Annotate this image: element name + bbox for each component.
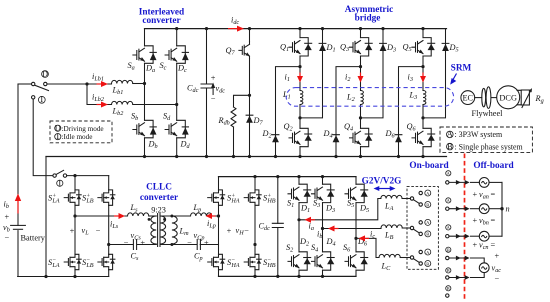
DC link capacitor Cdc leg bbox=[206, 29, 208, 157]
node L3 bottom bbox=[421, 116, 424, 119]
transistor Q3 bbox=[350, 38, 373, 56]
motor EC bbox=[461, 91, 475, 105]
current iLp arrow (left) bbox=[210, 215, 216, 217]
capacitor Cdc charger bbox=[272, 223, 283, 227]
leg 1 wire bbox=[299, 29, 301, 157]
transistor S6 with diode D6 bbox=[345, 252, 368, 270]
transistor Sa with diode Da bbox=[133, 46, 157, 64]
wire battery to switch D bbox=[18, 83, 32, 85]
grid source vcn bbox=[471, 235, 480, 237]
flywheel disks bbox=[482, 88, 486, 106]
wire to D3 bbox=[361, 51, 384, 118]
svg-text:=: = bbox=[491, 216, 496, 225]
battery positive wire bbox=[17, 84, 19, 225]
phase c wire bbox=[356, 238, 379, 257]
node Q3 emitter bbox=[359, 65, 362, 68]
transistor Q1 bbox=[289, 38, 312, 56]
svg-text:−: − bbox=[124, 239, 129, 248]
transistor Sd with diode Dd bbox=[165, 120, 189, 138]
terminal A2 bbox=[446, 198, 451, 203]
node leg2 bottom bbox=[175, 155, 178, 158]
transistor Q7 bbox=[249, 29, 251, 96]
node leg A top bbox=[73, 174, 76, 177]
inductor LC bbox=[379, 254, 400, 257]
svg-text:B: B bbox=[447, 286, 450, 291]
svg-text:bridge: bridge bbox=[355, 14, 381, 24]
wire to D1 bbox=[300, 51, 323, 118]
leg HB wire bbox=[254, 177, 256, 277]
battery negative wire bbox=[17, 231, 19, 277]
node leg HB mid bbox=[253, 243, 256, 246]
transistor SLA- bbox=[64, 254, 81, 269]
svg-text:B: B bbox=[426, 261, 429, 266]
transistor S1 with diode D1 bbox=[288, 184, 311, 202]
transistor SLB+ bbox=[98, 190, 115, 205]
node leg2 top bbox=[175, 27, 178, 30]
primary bottom wire with Cs bbox=[109, 244, 157, 246]
wire to D5 bbox=[423, 51, 446, 118]
svg-text:−: − bbox=[187, 239, 192, 248]
bottom DC bus bbox=[46, 156, 447, 158]
transistor SHA- bbox=[208, 254, 225, 269]
svg-text:+: + bbox=[473, 190, 478, 199]
neutral bus bbox=[501, 182, 503, 236]
svg-text:+: + bbox=[140, 239, 145, 248]
transistor Q2 bbox=[289, 128, 312, 146]
secondary top wire bbox=[160, 215, 190, 217]
wire to Rdb branch bbox=[234, 95, 250, 107]
svg-text:DCG: DCG bbox=[499, 93, 517, 102]
current i1 arrow bbox=[299, 73, 301, 79]
svg-text:CLLC: CLLC bbox=[146, 182, 172, 192]
svg-text:n: n bbox=[506, 205, 510, 214]
current iLs arrow bbox=[114, 215, 121, 217]
inverter leg 3 wire bbox=[355, 177, 357, 277]
wire Lb2 to leg2 bbox=[133, 104, 177, 106]
capacitor Cdc bbox=[201, 84, 212, 88]
node boost input bbox=[85, 82, 88, 85]
svg-text:B: B bbox=[447, 248, 450, 253]
wire to D6 bbox=[399, 67, 424, 135]
svg-text:SRM: SRM bbox=[451, 64, 472, 74]
svg-text:I: I bbox=[56, 132, 59, 141]
svg-text:: Single phase system: : Single phase system bbox=[455, 142, 524, 151]
selector switch box bbox=[407, 187, 438, 270]
magnetizing inductor Lm bbox=[172, 216, 177, 244]
svg-text:+: + bbox=[473, 241, 478, 250]
switch D (driving) bbox=[32, 82, 35, 85]
node phase c bbox=[354, 237, 357, 240]
current ia arrow (left) bbox=[309, 219, 316, 221]
svg-text:EC: EC bbox=[462, 93, 473, 102]
inductor Ls bbox=[128, 213, 149, 216]
transistor S5 with diode D5 bbox=[345, 184, 368, 202]
phase b selector bbox=[410, 226, 413, 229]
leg 2 wire bbox=[360, 29, 362, 157]
svg-text:9:23: 9:23 bbox=[151, 205, 166, 214]
node rail bbox=[44, 275, 47, 278]
inductor LA bbox=[381, 195, 402, 198]
bottom rail bbox=[219, 275, 357, 277]
phase a wire bbox=[299, 199, 381, 220]
svg-text:Off-board: Off-board bbox=[473, 161, 514, 171]
terminal B2 bbox=[446, 268, 451, 273]
inductor Lp bbox=[191, 213, 212, 216]
diode D6 bbox=[395, 135, 402, 143]
current i2 arrow bbox=[360, 73, 362, 79]
svg-text:D: D bbox=[42, 69, 48, 78]
top DC bus bbox=[145, 28, 447, 30]
grid source vbn bbox=[471, 208, 480, 210]
wire D switch to boost input node bbox=[47, 83, 87, 85]
legend box driving/idle bbox=[50, 121, 112, 143]
svg-text:+: + bbox=[5, 213, 10, 222]
svg-text:=: = bbox=[491, 241, 496, 250]
diode D4 bbox=[333, 135, 340, 143]
shaft 2 bbox=[491, 97, 497, 99]
diode D7 bbox=[249, 95, 251, 156]
red dashed separator bbox=[464, 154, 466, 300]
switch I contact bbox=[32, 96, 35, 99]
svg-text:converter: converter bbox=[140, 193, 178, 203]
terminal B3 unused bbox=[446, 286, 451, 291]
diode D1 bbox=[319, 43, 326, 51]
transistor SHA+ bbox=[208, 190, 225, 205]
node L2 bottom bbox=[359, 116, 362, 119]
transistor S4 with diode D4 bbox=[312, 252, 335, 270]
inductor LB bbox=[381, 225, 402, 228]
blue double arrow bbox=[378, 188, 392, 190]
terminal A1 bbox=[446, 171, 451, 176]
transistor Q6 bbox=[412, 128, 435, 146]
node leg1 mid bbox=[143, 82, 146, 85]
current ib arrow bbox=[17, 199, 19, 214]
shaft bbox=[475, 97, 482, 99]
wire to Lb1 bbox=[87, 83, 112, 85]
svg-text:A: A bbox=[447, 130, 453, 139]
node phase b bbox=[321, 227, 324, 230]
node leg A bottom bbox=[73, 275, 76, 278]
node leg A mid bbox=[73, 214, 76, 217]
legend box A/B systems bbox=[440, 127, 532, 152]
capacitor Cs bbox=[133, 240, 136, 250]
leg 3 wire bbox=[422, 29, 424, 157]
node leg HA mid bbox=[217, 214, 220, 217]
svg-text:Flywheel: Flywheel bbox=[472, 109, 504, 118]
svg-text:−: − bbox=[96, 227, 101, 236]
transistor S3 with diode D3 bbox=[312, 184, 335, 202]
terminal B1 bbox=[446, 247, 451, 252]
capacitor Cp bbox=[197, 240, 200, 250]
leg A wire bbox=[74, 176, 76, 277]
top rail left bridge bbox=[67, 175, 109, 177]
node L1 bottom bbox=[298, 116, 301, 119]
I circle tag bbox=[38, 96, 45, 103]
transformer secondary winding bbox=[160, 216, 165, 244]
transistor SHB- bbox=[244, 254, 261, 269]
svg-text:+: + bbox=[227, 227, 232, 236]
transistor SLB- bbox=[98, 254, 115, 269]
node leg1 bottom bbox=[143, 155, 146, 158]
current i3 arrow bbox=[422, 73, 424, 79]
transistor Q5 bbox=[412, 38, 435, 56]
inverter leg 2 wire bbox=[322, 177, 324, 277]
node Q1 emitter bbox=[298, 65, 301, 68]
current iLb2 arrow bbox=[97, 104, 104, 106]
phase c selector bbox=[410, 256, 413, 259]
transistor Sb with diode Db bbox=[133, 120, 157, 138]
phase b wire bbox=[323, 228, 382, 230]
svg-text:Battery: Battery bbox=[21, 234, 46, 243]
svg-text:B: B bbox=[447, 268, 450, 273]
leg B wire bbox=[108, 176, 110, 277]
wire to D4 bbox=[336, 67, 361, 135]
resistor Rdb bbox=[231, 107, 236, 127]
grid source van bbox=[471, 181, 480, 183]
wire to D2 bbox=[276, 67, 301, 135]
svg-text:B: B bbox=[426, 202, 429, 207]
svg-text:+: + bbox=[473, 216, 478, 225]
svg-text:−: − bbox=[5, 233, 10, 242]
current iLb1 arrow bbox=[97, 83, 104, 85]
transistor Q4 bbox=[350, 128, 373, 146]
boost leg 2 wire bbox=[176, 29, 178, 157]
svg-text:I: I bbox=[40, 95, 43, 104]
svg-text:−: − bbox=[244, 227, 249, 236]
svg-text:+: + bbox=[70, 227, 75, 236]
polarity dots bbox=[148, 218, 151, 221]
diode D5 bbox=[442, 43, 449, 51]
D circle tag bbox=[42, 71, 49, 78]
svg-text:: 3P3W system: : 3P3W system bbox=[455, 130, 504, 139]
phase a selector bbox=[410, 197, 413, 200]
terminal A3 bbox=[446, 225, 451, 230]
svg-text:=: = bbox=[491, 190, 496, 199]
svg-text:B: B bbox=[447, 142, 453, 151]
vdc annotation bbox=[212, 86, 214, 95]
leg HA wire bbox=[218, 177, 220, 277]
svg-text::Driving mode: :Driving mode bbox=[62, 125, 104, 133]
negative rail CLLC left bbox=[18, 276, 109, 278]
svg-text:+: + bbox=[204, 239, 209, 248]
SRM dashed winding oval bbox=[286, 88, 453, 107]
transistor SLA+ bbox=[64, 190, 81, 205]
svg-text:−: − bbox=[494, 274, 499, 283]
generator DCG bbox=[497, 86, 520, 109]
switch I (idle) on CLLC input bbox=[53, 174, 56, 177]
wire idle branch down to CLLC bbox=[33, 99, 53, 176]
current ib arrow (left) bbox=[332, 228, 339, 230]
winding L3 bbox=[423, 91, 426, 105]
single phase source vac bbox=[471, 258, 485, 278]
svg-text:G2V/V2G: G2V/V2G bbox=[362, 177, 402, 187]
transistor Sc with diode Dc bbox=[165, 46, 189, 64]
DC link capacitor Cdc (charger) leg bbox=[277, 177, 279, 277]
svg-text:I: I bbox=[58, 179, 61, 188]
svg-text:On-board: On-board bbox=[409, 161, 449, 171]
winding L1 bbox=[300, 91, 303, 105]
wire Lb1 to leg1 bbox=[133, 83, 145, 85]
node Q7 emitter bbox=[248, 94, 251, 97]
svg-text:B: B bbox=[426, 232, 429, 237]
node Q5 emitter bbox=[421, 65, 424, 68]
svg-text:+: + bbox=[211, 74, 216, 83]
node leg2 mid bbox=[175, 103, 178, 106]
svg-text:converter: converter bbox=[142, 16, 180, 26]
current ic arrow (left) bbox=[363, 237, 370, 239]
winding L2 bbox=[361, 91, 364, 105]
inductor Lb1 bbox=[112, 80, 133, 83]
svg-text:−: − bbox=[211, 95, 216, 104]
primary top wire bbox=[75, 215, 128, 217]
node n bbox=[500, 207, 503, 210]
svg-text::Idle mode: :Idle mode bbox=[62, 133, 93, 141]
boost leg 1 wire bbox=[144, 29, 146, 157]
node leg B mid bbox=[107, 243, 110, 246]
wire down to Lb2 branch bbox=[87, 84, 112, 105]
current idc arrow bbox=[228, 28, 239, 30]
transistor SHB+ bbox=[244, 190, 261, 205]
bottom bus return to battery bbox=[45, 157, 47, 277]
transformer primary winding bbox=[151, 216, 156, 244]
secondary bottom wire bbox=[160, 243, 218, 246]
node phase a bbox=[297, 218, 300, 221]
inverter leg 1 wire bbox=[298, 177, 300, 277]
transistor S2 with diode D2 bbox=[288, 252, 311, 270]
battery bbox=[11, 224, 26, 226]
diode D2 bbox=[272, 135, 279, 143]
resistor Rg bbox=[517, 90, 521, 105]
transformer core bbox=[158, 214, 160, 247]
top rail bbox=[219, 176, 357, 178]
inductor Lb2 bbox=[112, 101, 133, 104]
svg-text:+: + bbox=[494, 252, 499, 261]
diode D3 bbox=[380, 43, 387, 51]
